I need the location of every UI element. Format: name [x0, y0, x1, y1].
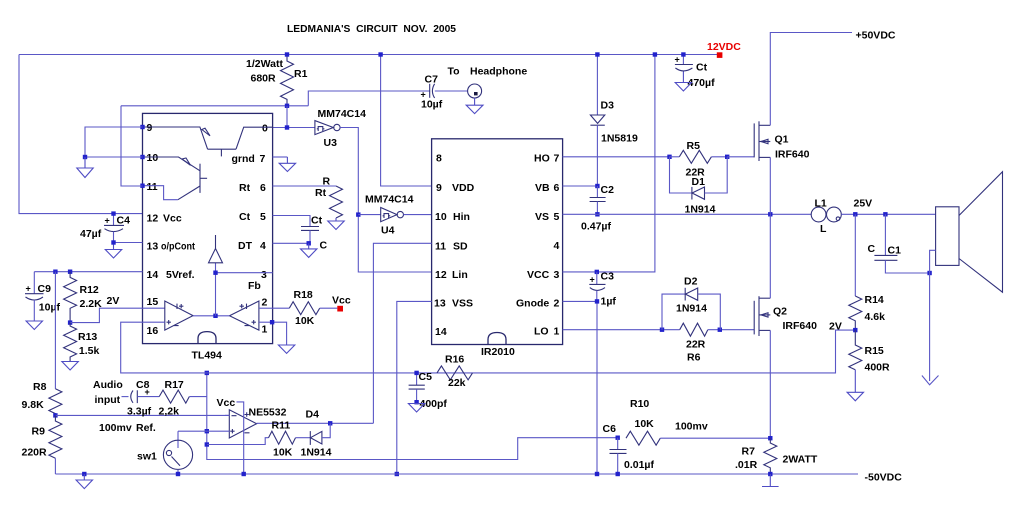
svg-text:15: 15 [147, 296, 159, 308]
resistor R12 [64, 272, 77, 323]
svg-text:3: 3 [554, 269, 560, 281]
resistor R13 [64, 323, 77, 362]
svg-text:L: L [820, 223, 827, 235]
wire U4 out to Hin [404, 214, 432, 216]
wire speaker return [930, 250, 936, 381]
svg-text:12: 12 [435, 269, 447, 281]
wire pin11 from R1 row [121, 106, 143, 186]
svg-text:U4: U4 [381, 225, 395, 237]
svg-text:1: 1 [262, 324, 268, 336]
junction R6 right [718, 328, 722, 332]
svg-text:Vcc: Vcc [217, 397, 236, 409]
svg-text:MM74C14: MM74C14 [365, 194, 414, 206]
capacitor C5 [416, 373, 418, 385]
svg-text:Lin: Lin [452, 269, 468, 281]
wire inv input [225, 414, 229, 416]
wire error amp outputs [193, 315, 230, 317]
junction Vcc lead bottom [242, 472, 246, 476]
svg-text:U3: U3 [324, 137, 338, 149]
op-amp U5 NE5532 [229, 410, 256, 438]
ground R15 [847, 392, 863, 401]
ground Rt [335, 218, 337, 221]
ground R7 [769, 474, 771, 487]
IC U2 IR2010 box [432, 139, 563, 345]
wire NE5532 output to SD [257, 422, 374, 424]
svg-text:1N914: 1N914 [676, 303, 707, 315]
svg-text:C7: C7 [425, 74, 439, 86]
junction 2V node [853, 328, 857, 332]
resistor R8 [49, 389, 62, 416]
svg-text:C3: C3 [601, 271, 615, 283]
svg-text:9.8K: 9.8K [22, 399, 45, 411]
ground C node [308, 243, 310, 249]
svg-text:11: 11 [147, 181, 158, 193]
svg-text:VCC: VCC [527, 269, 550, 281]
wire VCC pin3 from rail [563, 55, 655, 272]
junction VB C2 [595, 184, 599, 188]
svg-text:10K: 10K [635, 418, 655, 430]
headphone jack [468, 84, 482, 98]
svg-text:HO: HO [534, 153, 550, 165]
capacitor C9 [33, 272, 35, 294]
svg-text:D2: D2 [684, 276, 698, 288]
svg-text:7: 7 [260, 153, 266, 165]
svg-text:TL494: TL494 [192, 350, 223, 362]
junction Gnode C3 [595, 299, 599, 303]
wire pin16 into box [143, 321, 165, 323]
junction VCC rail [653, 52, 657, 56]
svg-text:C: C [868, 243, 876, 255]
svg-text:13: 13 [147, 241, 159, 253]
wire 100mv Ref row [55, 414, 229, 416]
svg-text:VS: VS [535, 211, 549, 223]
svg-text:VSS: VSS [452, 298, 473, 310]
svg-text:100mv: 100mv [99, 422, 132, 434]
svg-text:9: 9 [147, 122, 153, 134]
junction rail fb [205, 442, 209, 446]
transistor Q2 IRF640 [753, 301, 755, 335]
svg-text:+50VDC: +50VDC [856, 30, 896, 42]
op-amp TL494 left error amp [165, 301, 193, 330]
resistor R11 [269, 431, 296, 444]
junction pin14 a [53, 270, 57, 274]
svg-text:100mv: 100mv [675, 421, 708, 433]
ground R13 [62, 362, 78, 371]
junction C3 top [595, 270, 599, 274]
svg-text:Hin: Hin [453, 211, 470, 223]
svg-text:14: 14 [147, 269, 159, 281]
wire R5 right to Q1 gate [727, 156, 754, 158]
svg-text:Rt: Rt [315, 187, 327, 199]
svg-text:22k: 22k [448, 377, 466, 389]
capacitor C7 [429, 84, 431, 98]
svg-text:Q2: Q2 [773, 306, 787, 318]
svg-text:11: 11 [435, 241, 446, 253]
wire 2V to pin15 [70, 308, 165, 322]
svg-text:R16: R16 [445, 354, 464, 366]
svg-text:DT: DT [238, 240, 253, 252]
wire R10 to R7 node [660, 437, 770, 439]
wire L1 to speaker [841, 213, 935, 215]
svg-text:Ct: Ct [696, 62, 708, 74]
resistor R15 [849, 330, 862, 370]
node Fb internal [215, 263, 217, 316]
diode D2 1N914 [662, 294, 685, 330]
IC U1 TL494 box [143, 113, 273, 343]
diode D3 1N5819 [596, 55, 598, 116]
ground pin1 [278, 345, 294, 353]
svg-text:Ref.: Ref. [136, 422, 156, 434]
junction 100mv node [53, 413, 57, 417]
svg-text:C4: C4 [117, 215, 131, 227]
diode D4 1N914 [309, 431, 311, 445]
svg-text:13: 13 [434, 298, 446, 310]
junction C5 top [414, 371, 418, 375]
wire pin14 5Vref [34, 271, 142, 273]
resistor R5 [679, 150, 711, 163]
junction R1 top [285, 52, 289, 56]
svg-text:4: 4 [260, 240, 266, 252]
svg-text:1N914: 1N914 [685, 204, 716, 216]
junction C2 VS [595, 212, 599, 216]
svg-text:R9: R9 [32, 426, 46, 438]
svg-text:12: 12 [147, 213, 159, 225]
junction R7 bottom [768, 472, 772, 476]
svg-text:R17: R17 [165, 379, 184, 391]
svg-text:C: C [320, 240, 328, 252]
svg-text:Q1: Q1 [775, 134, 789, 146]
junction gnd bottom left [82, 472, 86, 476]
svg-text:R8: R8 [33, 381, 47, 393]
wire pin4 DT [273, 242, 309, 244]
wire to C7 [308, 91, 429, 106]
diode D1 1N914 [670, 157, 692, 193]
wire pin16 feedback row [121, 322, 856, 373]
svg-text:C1: C1 [888, 245, 902, 257]
junction rail top [205, 371, 209, 375]
wire 12V top rail [19, 54, 720, 56]
svg-text:+: + [105, 216, 110, 226]
transistor Q1 IRF640 [753, 123, 755, 157]
wire C8 to R17 [137, 396, 159, 398]
svg-text:R12: R12 [80, 284, 99, 296]
svg-text:25V: 25V [854, 198, 873, 210]
svg-text:0.01µf: 0.01µf [624, 459, 654, 471]
junction D3 rail [595, 52, 599, 56]
svg-text:+: + [26, 284, 31, 294]
junction C6 top [616, 436, 620, 440]
svg-text:R: R [323, 176, 331, 188]
svg-text:2WATT: 2WATT [783, 454, 818, 466]
svg-text:4: 4 [554, 240, 560, 252]
ground C5 [408, 404, 424, 413]
ground grnd7 [273, 156, 288, 158]
svg-text:14: 14 [435, 326, 447, 338]
svg-text:1µf: 1µf [601, 296, 617, 308]
svg-text:+: + [590, 275, 595, 285]
wire Gnode pin2 [563, 301, 597, 474]
svg-text:Vcc: Vcc [163, 213, 182, 225]
svg-text:C2: C2 [601, 184, 615, 196]
wire U3 out to U4/Lin [340, 128, 432, 273]
svg-text:MM74C14: MM74C14 [318, 108, 367, 120]
svg-text:6: 6 [260, 182, 266, 194]
junction VDD rail [378, 52, 382, 56]
svg-text:C5: C5 [419, 371, 433, 383]
svg-text:Ct: Ct [311, 215, 323, 227]
wire HO pin7 [563, 156, 670, 158]
svg-text:2,2k: 2,2k [159, 406, 180, 418]
svg-text:400R: 400R [865, 362, 891, 374]
svg-text:16: 16 [147, 325, 159, 337]
wire VSS net [397, 301, 432, 474]
svg-text:sw1: sw1 [137, 451, 157, 463]
junction VSS bottom [395, 472, 399, 476]
svg-text:LEDMANIA'S CIRCUIT NOV. 200: LEDMANIA'S CIRCUIT NOV. 2005 [287, 23, 456, 35]
svg-text:R15: R15 [865, 345, 884, 357]
svg-text:IR2010: IR2010 [481, 346, 515, 358]
svg-text:Ct: Ct [239, 211, 251, 223]
svg-text:10K: 10K [295, 315, 315, 327]
junction VS Q column [768, 212, 772, 216]
wire Q2 source [769, 330, 771, 438]
svg-text:6: 6 [554, 182, 560, 194]
svg-text:5: 5 [260, 211, 266, 223]
inverter U3 MM74C14 [315, 121, 333, 135]
svg-text:D3: D3 [601, 100, 615, 112]
ground pin9/10 [84, 157, 86, 168]
svg-text:To: To [448, 66, 460, 78]
junction R14 top [853, 212, 857, 216]
svg-text:Fb: Fb [248, 280, 261, 292]
ground Ct [675, 83, 691, 92]
wire pin1 to ground [272, 322, 287, 345]
wire VB pin6 [563, 185, 598, 187]
svg-text:o/pCont: o/pCont [161, 241, 195, 253]
svg-text:220R: 220R [22, 447, 48, 459]
svg-text:1N914: 1N914 [301, 447, 332, 459]
wire SD net [373, 243, 431, 423]
junction R6 left [660, 328, 664, 332]
wire NE5532 Vcc lead [237, 402, 244, 474]
svg-text:2V: 2V [107, 295, 120, 307]
wire D4 up to output [322, 423, 330, 437]
resistor R16 [437, 366, 473, 380]
wire LO pin1 [563, 329, 680, 331]
junction pin0 [285, 125, 289, 129]
resistor Rt [273, 185, 336, 187]
junction R12/R13 [68, 320, 72, 324]
svg-text:22R: 22R [686, 339, 706, 351]
ground C4 [113, 245, 115, 250]
svg-text:Rt: Rt [239, 182, 251, 194]
wire left rail to Vcc pin12 [19, 55, 143, 214]
svg-text:L1: L1 [815, 198, 827, 210]
svg-text:R5: R5 [687, 140, 701, 152]
wire Q1 drain +50V [770, 33, 852, 126]
svg-text:IRF640: IRF640 [783, 320, 818, 332]
op-amp input marks [230, 412, 249, 433]
resistor R18 [273, 307, 290, 309]
svg-text:+: + [145, 387, 150, 397]
svg-text:.01R: .01R [735, 459, 758, 471]
capacitor C6 [617, 438, 619, 450]
svg-text:R11: R11 [272, 420, 291, 432]
svg-text:5Vref.: 5Vref. [166, 269, 195, 281]
resistor R14 [854, 214, 856, 296]
svg-text:7: 7 [554, 153, 560, 165]
arrow output common [922, 376, 939, 385]
svg-text:R7: R7 [742, 446, 756, 458]
svg-text:0.47µf: 0.47µf [581, 221, 611, 233]
svg-text:R14: R14 [865, 294, 884, 306]
svg-text:input: input [95, 394, 121, 406]
junction C1 top [883, 212, 887, 216]
op-amp TL494 right error amp [230, 301, 259, 330]
svg-text:-50VDC: -50VDC [865, 472, 903, 484]
svg-text:R10: R10 [630, 398, 649, 410]
pin dots 9 10 11 [140, 125, 144, 129]
wire noninv rail [207, 373, 618, 460]
junction R5 left [667, 155, 671, 159]
capacitor C2 [596, 186, 598, 198]
svg-text:SD: SD [453, 241, 468, 253]
wire bottom -50V rail [55, 473, 858, 475]
svg-text:LO: LO [534, 326, 549, 338]
svg-text:0: 0 [262, 123, 268, 135]
svg-text:C9: C9 [38, 283, 52, 295]
svg-text:10: 10 [147, 152, 159, 164]
wire R17 to rail [189, 396, 207, 398]
resistor R17 [159, 390, 189, 403]
junction R7 top [768, 436, 772, 440]
junction C4 bottom [111, 240, 115, 244]
svg-text:3: 3 [261, 269, 267, 281]
wire Q1 source [769, 157, 771, 214]
transistor internal lower [143, 157, 201, 171]
svg-text:R13: R13 [78, 331, 97, 343]
wire noninv input [178, 430, 229, 432]
svg-text:IRF640: IRF640 [775, 149, 810, 161]
wire C7 to headphone [435, 90, 468, 92]
svg-text:1: 1 [554, 326, 560, 338]
svg-text:680R: 680R [251, 73, 277, 85]
switch sw1 [177, 431, 179, 448]
svg-text:4.6k: 4.6k [865, 311, 886, 323]
wire audio input lead [122, 396, 129, 398]
svg-text:R1: R1 [294, 68, 308, 80]
junction C4 top [111, 211, 115, 215]
resistor R10 [626, 431, 660, 445]
speaker [936, 207, 959, 266]
DT reference arrow [215, 235, 217, 249]
wire VS output row [563, 213, 812, 215]
svg-text:8: 8 [436, 153, 442, 165]
wire VDD from rail [381, 55, 432, 187]
capacitor C3 [596, 272, 598, 285]
svg-text:2: 2 [554, 298, 560, 310]
junction gnd node [83, 155, 87, 159]
resistor R9 [49, 415, 62, 458]
wire pin0 row [286, 106, 288, 128]
junction C5 bottom [414, 400, 418, 404]
svg-text:Audio: Audio [93, 379, 123, 391]
svg-text:2: 2 [262, 297, 268, 309]
svg-text:9: 9 [436, 182, 442, 194]
wire feedback jog [207, 438, 268, 445]
ground headphone [474, 98, 476, 105]
svg-text:1.5k: 1.5k [79, 345, 100, 357]
svg-text:10: 10 [435, 211, 447, 223]
svg-text:VDD: VDD [452, 182, 475, 194]
svg-text:10K: 10K [273, 447, 293, 459]
junction U4 input [356, 212, 360, 216]
capacitor C8 [131, 391, 133, 403]
capacitor Ct pin5 [273, 216, 310, 227]
svg-text:1/2Watt: 1/2Watt [246, 58, 283, 70]
inverter U4 MM74C14 [358, 214, 380, 216]
junction Ct rail [681, 52, 685, 56]
svg-text:D1: D1 [692, 176, 706, 188]
wire sw1 bottom [177, 469, 179, 474]
ground bottom left [83, 474, 85, 480]
svg-text:+: + [421, 90, 426, 100]
transistor internal top [143, 127, 208, 149]
junction C6 bottom [616, 472, 620, 476]
svg-text:Gnode: Gnode [516, 298, 549, 310]
svg-text:Vcc: Vcc [332, 295, 351, 307]
junction R1 bottom [285, 104, 289, 108]
svg-text:VB: VB [535, 182, 550, 194]
svg-text:C6: C6 [603, 423, 617, 435]
wire pin13 [114, 242, 143, 244]
junction R5 right [725, 155, 729, 159]
svg-text:3.3µf: 3.3µf [127, 406, 152, 418]
svg-text:2V: 2V [829, 321, 842, 333]
svg-text:R6: R6 [687, 352, 701, 364]
wire R1 bottom row [121, 105, 308, 107]
junction Gnode bottom [595, 472, 599, 476]
svg-text:2.2K: 2.2K [80, 298, 103, 310]
junction rail sw1 [205, 429, 209, 433]
svg-text:Headphone: Headphone [470, 66, 527, 78]
wire Q2 drain [769, 214, 771, 298]
wire pin9/10 to ground [85, 127, 143, 157]
svg-text:10µf: 10µf [421, 99, 443, 111]
svg-text:D4: D4 [306, 409, 320, 421]
wire R11 to D4 [296, 437, 311, 439]
ground C9 [26, 321, 42, 330]
svg-text:12VDC: 12VDC [707, 41, 741, 53]
junction speaker return [927, 271, 931, 275]
svg-text:5: 5 [554, 211, 560, 223]
svg-text:+: + [675, 55, 680, 65]
junction C node [307, 241, 311, 245]
svg-text:1N5819: 1N5819 [601, 133, 638, 145]
junction output node [213, 314, 217, 318]
junction D4 out [328, 421, 332, 425]
inductor L1 [811, 207, 826, 222]
svg-text:47µf: 47µf [80, 228, 102, 240]
svg-text:grnd: grnd [232, 153, 255, 165]
resistor R7 [764, 438, 777, 474]
svg-text:10µf: 10µf [39, 302, 61, 314]
junction sw1 bottom [176, 472, 180, 476]
wire pin11 jog [143, 186, 178, 200]
junction pin14 b [68, 270, 72, 274]
resistor R1 [281, 56, 294, 106]
rail x55 5Vref to R8 [54, 272, 56, 389]
